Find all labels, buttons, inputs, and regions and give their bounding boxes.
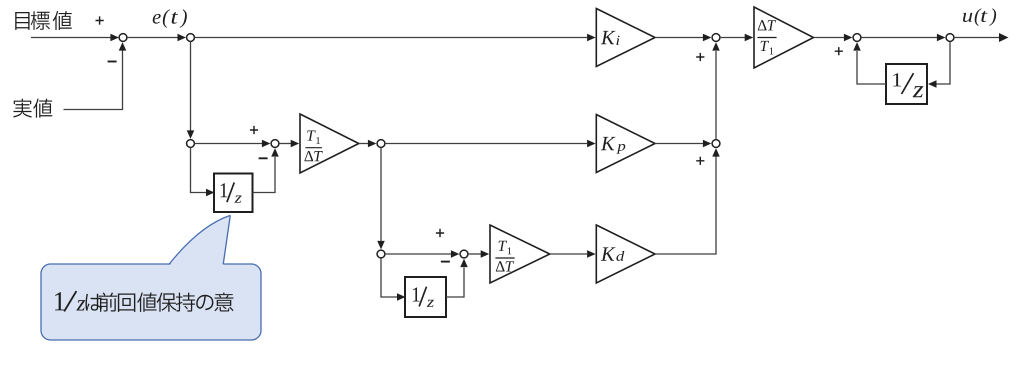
gain triangle Kd [596, 225, 655, 283]
wire: error node down to P branch [190, 41, 192, 131]
wire S4 to dT/T1 block [720, 37, 745, 39]
node N branch point (derivative) [377, 250, 385, 258]
output node [946, 34, 954, 42]
plus sign at summing node S6 [696, 157, 704, 165]
wire: node N down into delay D3 [381, 258, 397, 297]
label Kd [601, 247, 625, 260]
label 1/z in D1 [893, 73, 923, 97]
wire: setpoint input line [31, 37, 111, 39]
wire S2 to T1/dT block [279, 143, 291, 145]
wire: output node down into delay D1 [937, 41, 951, 84]
plus sign at summing node S5 [835, 47, 843, 55]
delay box D3 [405, 277, 446, 317]
wire node N to summing node S3 [385, 253, 451, 255]
delay box D1 [886, 64, 927, 104]
wire Kd up into S6 [655, 153, 716, 255]
wire: actual value feedback into S1 [64, 51, 123, 110]
wire: D3 output up into S3 [446, 268, 464, 298]
summing node S3 (difference, derivative) [460, 250, 468, 258]
gain triangle T1/dT (derivative path) [490, 225, 550, 283]
wire S3 to T1/dT block (derivative) [468, 253, 481, 255]
label 目標値 (setpoint) [15, 11, 72, 30]
delay box D2 [214, 174, 253, 213]
wire: error to Ki gain [195, 37, 588, 39]
wire dT/T1 to summing node S5 [814, 37, 845, 39]
label 1/z in D3 [413, 287, 434, 307]
wire T1/dT to node M [359, 143, 368, 145]
summing node S5 (output accumulator) [853, 34, 861, 42]
label u(t) [963, 8, 996, 26]
label e(t) [153, 9, 187, 28]
wire Kp to summing node S6 [655, 143, 703, 145]
wire: output arrow u(t) [954, 37, 1000, 39]
wire: D1 output up into S5 [857, 51, 886, 84]
node E: error branch point [187, 34, 195, 42]
callout bubble tail [169, 216, 231, 267]
callout text 1/z は前回値保持の意 [55, 291, 233, 312]
wire S1 to error node [127, 37, 178, 39]
wire Ki to summing node S4 [655, 37, 703, 39]
callout bubble body [41, 264, 261, 340]
summing node S1 [119, 34, 127, 42]
label Ki [601, 31, 620, 45]
wire S6 up into S4 [715, 51, 717, 140]
label T1/dT fraction (derivative) [495, 241, 514, 272]
minus sign at summing node S1 [108, 61, 117, 63]
label 実値 (actual value) [13, 98, 52, 117]
gain triangle Kp [596, 115, 655, 173]
minus sign at summing node S2 [259, 157, 268, 159]
plus sign at summing node S3 [436, 229, 444, 237]
gain triangle T1/dT (proportional path) [300, 114, 359, 173]
wire node M down to D branch [380, 147, 382, 241]
wire node M to Kp [385, 143, 587, 145]
minus sign at summing node S3 [441, 261, 450, 263]
wire T1/dT to Kd [550, 253, 587, 255]
label T1/dT fraction [304, 130, 322, 161]
gain triangle dT/T1 [754, 7, 814, 68]
plus sign at summing node S4 [696, 53, 704, 61]
plus sign at summing node S2 [250, 126, 258, 134]
node M branch point [377, 140, 385, 148]
label dT/T1 fraction [757, 20, 776, 54]
label 1/z in D2 [221, 182, 242, 202]
plus sign at summing node S1 [96, 16, 104, 24]
wire S5 to output node [861, 37, 937, 39]
summing node S2 (difference) [271, 140, 279, 148]
label Kp [601, 137, 625, 154]
wire: P node to summing node S2 [195, 143, 263, 145]
summing node S6 (P+D sum) [712, 140, 720, 148]
summing node S4 (integral sum) [712, 34, 720, 42]
gain triangle Ki [596, 9, 655, 67]
wire: P node down into delay D2 [191, 147, 207, 192]
wire: D2 output up into S2 [253, 157, 276, 193]
node P branch point [187, 140, 195, 148]
